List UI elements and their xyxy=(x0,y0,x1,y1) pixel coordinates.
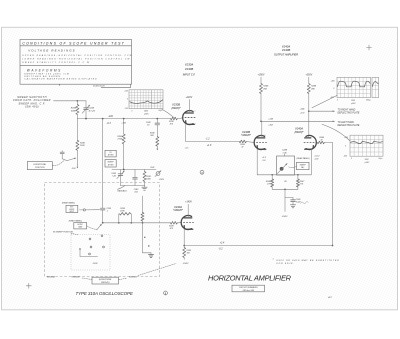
resistor R238 with capacitor C238 bypass xyxy=(118,214,120,223)
svg-text:R239: R239 xyxy=(117,136,123,138)
svg-text:R246: R246 xyxy=(263,85,269,88)
svg-text:(SW 490): (SW 490) xyxy=(25,106,39,109)
svg-text:1000: 1000 xyxy=(351,100,355,102)
svg-text:0: 0 xyxy=(127,99,128,101)
svg-text:SWEEP STABILITY CONTROL C C W: SWEEP STABILITY CONTROL C C W xyxy=(22,61,90,64)
svg-text:-150V: -150V xyxy=(282,216,288,218)
svg-text:6922 OR 8416 MAY BE SUBSTITUT: 6922 OR 8416 MAY BE SUBSTITUTED xyxy=(277,259,340,262)
potentiometer R237 (horizontal position) xyxy=(76,150,78,164)
wire: cathode network to -150V xyxy=(272,188,298,190)
svg-text:OUTPUT AMPLIFIER: OUTPUT AMPLIFIER xyxy=(274,53,298,56)
resistor R240 xyxy=(156,137,159,147)
label box: ext horiz input xyxy=(66,205,78,212)
svg-text:INPUT C.F.: INPUT C.F. xyxy=(183,73,196,76)
svg-text:UPPER READINGS~HORIZONTAL POSI: UPPER READINGS~HORIZONTAL POSITION CONTR… xyxy=(22,54,132,57)
wire: V230A cathode down xyxy=(183,229,185,245)
svg-text:V230A: V230A xyxy=(185,62,194,66)
resistor R247 xyxy=(297,175,299,179)
svg-text:+1.8: +1.8 xyxy=(207,145,212,147)
resistor R231 xyxy=(141,213,144,222)
svg-text:µSEC: µSEC xyxy=(144,113,149,115)
wire: V240B plate lead xyxy=(261,121,263,138)
pencil note: adj xyxy=(301,202,309,204)
svg-text:0: 0 xyxy=(131,110,132,112)
svg-text:+51.2: +51.2 xyxy=(314,156,320,158)
svg-text:+350V: +350V xyxy=(305,75,312,77)
svg-text:1: 1 xyxy=(195,111,196,113)
svg-text:180K: 180K xyxy=(146,179,151,181)
wire: V230A plate to +140V xyxy=(187,204,189,218)
title box: circuit numbers xyxy=(232,285,265,292)
svg-text:50µs: 50µs xyxy=(159,110,163,112)
tube V230A (input cathode follower) xyxy=(181,216,191,230)
svg-text:+140V: +140V xyxy=(185,201,192,204)
svg-text:DEFLECTING PLATE: DEFLECTING PLATE xyxy=(338,111,360,114)
svg-text:470K: 470K xyxy=(120,209,125,212)
svg-text:CALIBRATOR WAVEFORM BEING DISP: CALIBRATOR WAVEFORM BEING DISPLAYED xyxy=(24,78,97,81)
switch column right xyxy=(142,196,144,213)
svg-text:SWITCHES AS SHOWN: SWITCHES AS SHOWN xyxy=(24,75,60,78)
wire: V240B cathode down xyxy=(256,149,258,175)
svg-text:1000: 1000 xyxy=(365,159,369,161)
leader: gain adj note xyxy=(118,186,126,190)
wiper arrow: horizontal gain pot xyxy=(97,224,102,230)
resistor R241 xyxy=(144,170,146,172)
svg-text:R234: R234 xyxy=(71,107,77,110)
svg-text:IN SWEEP POSITION: IN SWEEP POSITION xyxy=(53,231,73,233)
svg-text:-150V: -150V xyxy=(159,179,165,181)
label box: horizontal position xyxy=(27,162,52,170)
ground xyxy=(142,187,147,190)
svg-text:ATTEN: ATTEN xyxy=(107,163,114,166)
svg-text:V240B: V240B xyxy=(282,48,291,52)
svg-text:+100: +100 xyxy=(124,91,128,93)
resistor R244 (grid stopper V240A) xyxy=(317,141,324,144)
resistor R245 xyxy=(271,175,273,179)
waveform graticule: left deflection plate xyxy=(350,135,383,156)
svg-text:+350V: +350V xyxy=(258,75,265,77)
switch contacts xyxy=(89,238,91,240)
svg-text:150K: 150K xyxy=(80,145,85,147)
terminal: ext input jack xyxy=(83,209,85,211)
svg-text:HORIZONTAL AMPLIFIER: HORIZONTAL AMPLIFIER xyxy=(208,273,292,282)
svg-text:.1: .1 xyxy=(106,210,108,212)
wire: V240A cathode down xyxy=(310,149,312,175)
svg-text:28K: 28K xyxy=(310,88,315,90)
svg-text:TO LEFT HAND: TO LEFT HAND xyxy=(338,121,355,124)
wire: main input line to V230B grid xyxy=(77,118,170,120)
svg-text:+160: +160 xyxy=(121,123,127,125)
svg-text:µSEC: µSEC xyxy=(365,162,370,164)
svg-text:VOLTAGE READINGS: VOLTAGE READINGS xyxy=(28,49,76,53)
capacitor C249 xyxy=(285,197,293,199)
svg-text:R248: R248 xyxy=(311,85,317,88)
svg-text:27K: 27K xyxy=(266,184,271,186)
potentiometer R240 (swp/mag regis 2K) xyxy=(280,167,284,171)
wire: switch to ground xyxy=(142,223,144,253)
wire: cathode bus xyxy=(257,174,311,176)
wire: V230A cathode to V240A grid xyxy=(184,245,332,247)
waveform graticule: right deflection plate xyxy=(337,77,371,97)
leader: plate wire to graticule 3 xyxy=(322,124,350,141)
svg-text:0: 0 xyxy=(345,146,346,148)
registration mark xyxy=(26,283,31,288)
svg-text:-350: -350 xyxy=(343,155,347,157)
resistor R230 (grid stopper V230B) xyxy=(171,117,178,120)
potentiometer R242 (gain adj) xyxy=(156,172,160,176)
wire: gain cluster ground bus xyxy=(121,185,145,187)
box: sweep cal pot xyxy=(277,156,295,175)
wire: attenuator column xyxy=(102,119,104,208)
tube V240B (output amplifier) xyxy=(254,136,264,150)
svg-text:2K: 2K xyxy=(283,181,287,183)
svg-text:6.2µF: 6.2µF xyxy=(296,201,302,203)
svg-text:(HORIZONTAL: (HORIZONTAL xyxy=(99,278,112,281)
svg-text:500µs: 500µs xyxy=(366,100,371,102)
svg-text:+140V: +140V xyxy=(185,96,192,99)
wire: wafer common xyxy=(80,249,98,257)
svg-text:DEFLECTING PLATE: DEFLECTING PLATE xyxy=(338,124,360,127)
capacitor C234 (trimmer) xyxy=(85,101,87,107)
svg-text:-0.3: -0.3 xyxy=(107,122,112,125)
svg-text:50µs: 50µs xyxy=(379,158,383,160)
svg-text:6: 6 xyxy=(265,135,266,137)
svg-text:DISPLAY): DISPLAY) xyxy=(101,281,110,284)
svg-text:(REAR PANEL): (REAR PANEL) xyxy=(62,201,75,204)
wire: to right-hand deflecting plate xyxy=(309,110,335,112)
resistor R246 xyxy=(260,77,262,83)
svg-text:ATTEN: ATTEN xyxy=(107,154,114,157)
conditions-of-test note box xyxy=(20,40,132,85)
mark: circled a xyxy=(200,170,204,174)
svg-text:8: 8 xyxy=(265,150,266,152)
wire: V230B cathode to V240B grid xyxy=(186,141,240,143)
waveform graticule: input sweep xyxy=(129,90,163,109)
label box: 5X atten xyxy=(105,150,116,157)
dashed enclosure: sweep/ext switch SW230 xyxy=(45,183,160,277)
svg-text:0: 0 xyxy=(337,99,338,101)
dotted enclosure: switch wafer SW230 xyxy=(71,235,110,271)
registration mark xyxy=(367,45,372,50)
svg-text:µSEC: µSEC xyxy=(351,103,356,105)
svg-text:SW230B: SW230B xyxy=(72,276,81,278)
svg-text:GAIN ADJ: GAIN ADJ xyxy=(117,190,127,193)
svg-text:HORIZONTAL: HORIZONTAL xyxy=(33,163,46,166)
svg-text:(REAR PANEL): (REAR PANEL) xyxy=(297,157,310,160)
svg-text:HORIZ.: HORIZ. xyxy=(77,224,83,226)
svg-text:0: 0 xyxy=(333,88,334,90)
wire: V230B plate to +140V xyxy=(189,100,191,114)
svg-text:3: 3 xyxy=(195,124,196,126)
leader: plate wire to graticule 2 xyxy=(312,95,337,108)
svg-text:-100: -100 xyxy=(124,108,127,110)
wire: input to R234/C234 node xyxy=(54,100,78,102)
resistor R232 (cathode load) xyxy=(183,246,185,248)
capacitor C230 xyxy=(100,208,105,210)
capacitor C243 (trimmer) xyxy=(120,170,122,174)
resistor R248 xyxy=(308,77,310,83)
svg-text:SW230A: SW230A xyxy=(47,275,56,278)
wire: horizontal position network column xyxy=(76,119,78,141)
svg-text:0: 0 xyxy=(351,158,352,160)
leader: graticule to grid wire xyxy=(162,109,175,118)
svg-text:CAL.: CAL. xyxy=(301,166,305,169)
resistor R228 (grid stopper V230A) xyxy=(171,222,178,225)
capacitor C242 xyxy=(134,170,136,178)
wire: V240A grid column xyxy=(332,143,334,246)
svg-text:-150V: -150V xyxy=(92,263,98,265)
wire: horizontal amp input line to V230A grid xyxy=(103,222,171,224)
tube V240A (output amplifier) xyxy=(306,136,316,150)
svg-text:(6DJ8)*: (6DJ8)* xyxy=(171,106,181,110)
svg-text:½6DJ8*: ½6DJ8* xyxy=(173,208,184,212)
svg-text:2400: 2400 xyxy=(143,110,148,113)
resistor R234 xyxy=(76,101,78,105)
svg-text:27K: 27K xyxy=(299,184,304,186)
resistor R243 (grid stopper V240B) xyxy=(239,140,246,143)
svg-text:SWEEP: SWEEP xyxy=(300,164,307,166)
svg-text:(REAR PANEL): (REAR PANEL) xyxy=(69,219,82,222)
svg-text:SWEEP: SWEEP xyxy=(108,162,115,164)
svg-text:TYPE 310A OSCILLOSCOPE: TYPE 310A OSCILLOSCOPE xyxy=(76,291,134,296)
svg-text:[6DJ8]*: [6DJ8]* xyxy=(294,130,305,134)
svg-text:HORIZ.: HORIZ. xyxy=(69,209,75,211)
svg-text:4.7-25: 4.7-25 xyxy=(89,109,96,112)
svg-text:CONDITIONS OF SCOPE UNDER TEST: CONDITIONS OF SCOPE UNDER TEST xyxy=(22,42,125,46)
svg-text:FOR 6DJ8.: FOR 6DJ8. xyxy=(277,263,295,265)
svg-text:330K: 330K xyxy=(71,110,77,112)
svg-text:270K: 270K xyxy=(116,139,122,141)
svg-text:POSITION: POSITION xyxy=(35,167,45,169)
svg-text:TO RIGHT HAND: TO RIGHT HAND xyxy=(338,108,356,111)
svg-text:SW230C: SW230C xyxy=(129,276,138,278)
svg-text:310A 100-2R: 310A 100-2R xyxy=(93,85,105,88)
wire: gain adjust bus xyxy=(112,169,156,171)
svg-text:C234: C234 xyxy=(89,107,95,110)
capacitor C240 xyxy=(156,119,158,123)
svg-text:-150V: -150V xyxy=(183,263,189,265)
svg-text:V230B: V230B xyxy=(185,67,194,71)
svg-text:+2.4: +2.4 xyxy=(220,242,225,245)
resistor R236 xyxy=(76,140,79,150)
svg-text:.001: .001 xyxy=(134,192,138,194)
svg-text:WAVEFORMS: WAVEFORMS xyxy=(27,68,62,72)
mark: stray dot xyxy=(59,84,60,85)
label box: horizontal display xyxy=(92,277,119,284)
label box: sweep atten xyxy=(105,160,116,167)
mark: circled 8 xyxy=(164,291,168,295)
svg-text:LOWER READINGS~HORIZONTAL POSI: LOWER READINGS~HORIZONTAL POSITION CONTR… xyxy=(22,58,130,61)
svg-text:26K: 26K xyxy=(262,88,267,90)
tube V230B (sweep cathode follower) xyxy=(183,111,193,125)
wire: to left-hand deflecting plate xyxy=(261,120,335,122)
svg-text:R242: R242 xyxy=(150,166,154,169)
svg-text:½6DJ8*: ½6DJ8* xyxy=(241,133,252,137)
wire: V240A plate lead junction xyxy=(308,137,310,139)
svg-text:C248: C248 xyxy=(282,149,288,152)
wire: V230B cathode down xyxy=(185,124,187,141)
svg-text:230 thru 249: 230 thru 249 xyxy=(242,289,255,292)
svg-text:-210: -210 xyxy=(108,115,114,118)
label box: horiz gain xyxy=(74,223,87,229)
svg-text:+300: +300 xyxy=(330,81,334,83)
